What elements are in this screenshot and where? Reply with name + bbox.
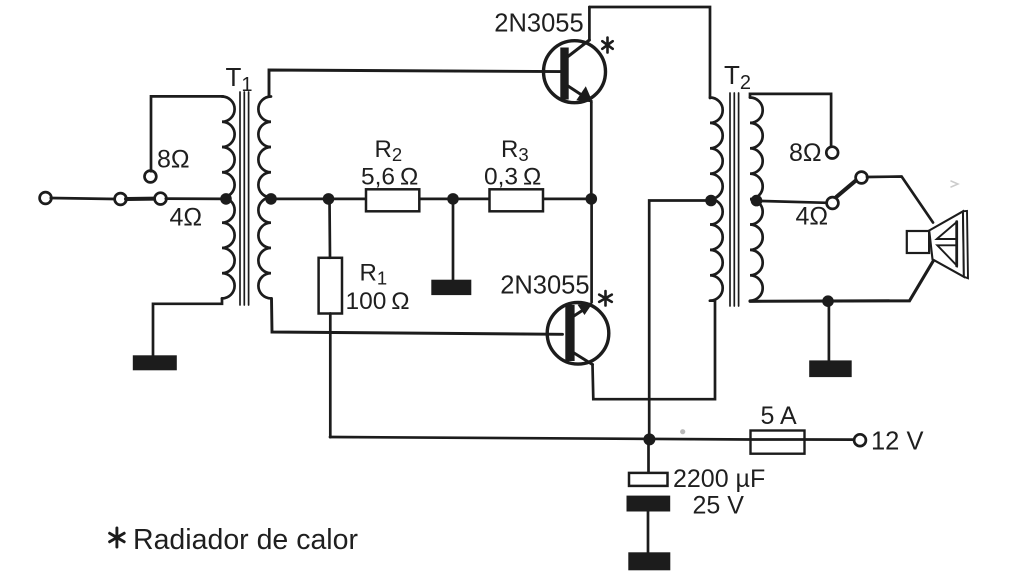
ground G4 (capacitor) [628,552,670,570]
node between R2 and R3 [447,193,459,205]
svg-text:R2: R2 [375,136,403,165]
resistor R2 body [366,189,419,211]
svg-text:8Ω: 8Ω [157,146,190,174]
svg-text:5 A: 5 A [761,402,797,430]
wire node to ground G3 [828,301,831,361]
output contact 4-ohm [827,197,839,209]
12V terminal [854,434,866,446]
svg-text:100 Ω: 100 Ω [346,288,410,315]
svg-text:12 V: 12 V [871,427,923,455]
wire C1 to ground [647,512,650,554]
wire fuse to 12V terminal [805,438,855,441]
fuse F1 body [751,431,805,454]
wire T1 secondary top to Q1 base [269,70,561,97]
speaker horn rim [963,211,968,278]
transistor Q2 (2N3055 bottom) circle [547,303,609,365]
svg-text:4Ω: 4Ω [796,203,829,231]
node R1 top junction [323,193,335,205]
transformer T2 primary winding [710,98,723,301]
wire 4-ohm contact to T1 tap [166,197,226,200]
wire 4-ohm tap to contact [762,201,827,203]
svg-text:R1: R1 [360,260,388,289]
scan artifact mark [951,181,958,187]
svg-text:Radiador de calor: Radiador de calor [133,524,358,556]
speaker cone upper triangle [937,222,957,239]
node T2 secondary 4-ohm tap [751,195,763,207]
svg-text:8Ω: 8Ω [789,139,822,167]
capacitor C1 negative plate [627,496,671,512]
transformer T2 core [729,93,731,306]
svg-text:R3: R3 [501,136,529,165]
speaker cone lower triangle [937,245,957,265]
wire T2 secondary top to 8-ohm contact [750,94,831,147]
svg-text:2N3055: 2N3055 [494,10,583,38]
wire input to switch pole [51,198,115,199]
ground G3 (speaker return) [809,360,852,377]
wire R2-R3 node to ground [452,199,455,280]
Q2 emitter lead up to node [590,199,593,302]
svg-text:25 V: 25 V [693,492,745,520]
svg-text:T1: T1 [226,62,253,96]
svg-text:2N3055: 2N3055 [500,272,589,300]
Q2 emitter diagonal with arrow [570,309,585,319]
switch contact 4-ohm [155,193,167,205]
svg-text:5,6 Ω: 5,6 Ω [361,163,418,190]
node emitters junction [586,193,598,205]
wire T1 primary bottom to ground [153,298,222,355]
wire switch to speaker [867,177,933,223]
transformer T1 primary winding [222,97,235,299]
switch pole contact [115,193,127,205]
Q1 collector lead up [588,7,591,40]
wire R1 bottom lead to 12V rail [329,314,332,438]
transistor Q1 (2N3055 top) circle [544,41,606,103]
12V supply rail [330,437,751,440]
wire T2 center tap to supply rail [649,201,711,440]
transformer T2 secondary winding [750,98,763,301]
svg-text:2200 µF: 2200 µF [673,465,765,493]
svg-text:T2: T2 [724,60,751,94]
wire speaker bottom to return line [750,261,933,302]
output switch blade [837,181,856,197]
speaker cone center bar [955,222,958,266]
speaker LS1 magnet box [907,231,929,253]
node supply junction [643,433,655,445]
transformer T1 core [239,92,241,305]
node T2 primary center tap [705,195,717,207]
wire Q2 collector to T2 bottom [593,301,716,400]
wire 8-ohm contact up to T1 top [151,96,223,171]
Q1 emitter lead down to node [590,101,593,199]
transformer T1 secondary winding [258,97,271,299]
svg-text:0,3 Ω: 0,3 Ω [484,163,541,190]
ground G1 (T1 primary) [133,355,177,370]
svg-text:4Ω: 4Ω [170,204,203,232]
output switch pole contact [856,172,868,184]
capacitor C1 lead from rail [647,439,650,473]
Q1 emitter diagonal with arrow [568,86,584,97]
asterisk in caption [110,528,125,547]
switch contact 8-ohm [145,171,157,183]
ground G2 (bias network) [431,280,471,295]
node: T1 secondary center tap [265,193,277,205]
Q1 base bar [560,48,568,100]
node: T1 primary center tap [220,193,232,205]
wire T1 secondary bottom to Q2 base [272,298,563,334]
capacitor C1 positive plate [629,473,668,486]
switch blade (input impedance selector) [126,197,155,201]
wire Q1 collector to T2 top [589,7,710,98]
wire T1 tap to emitters node (bias line) [276,198,591,201]
Q2 collector diagonal [570,351,593,365]
Q1 collector diagonal [568,40,589,57]
input terminal J1 [40,192,52,204]
wire R1 top lead [328,199,331,258]
asterisk at Q2 [599,291,612,306]
asterisk at Q1 [602,38,612,53]
resistor R3 body [490,189,544,211]
Q2 base bar [565,305,574,361]
speaker horn body [929,211,964,276]
node speaker return to ground [822,295,834,307]
scan artifact dot [680,429,685,434]
output contact 8-ohm [826,147,838,159]
resistor R1 body [319,258,342,314]
